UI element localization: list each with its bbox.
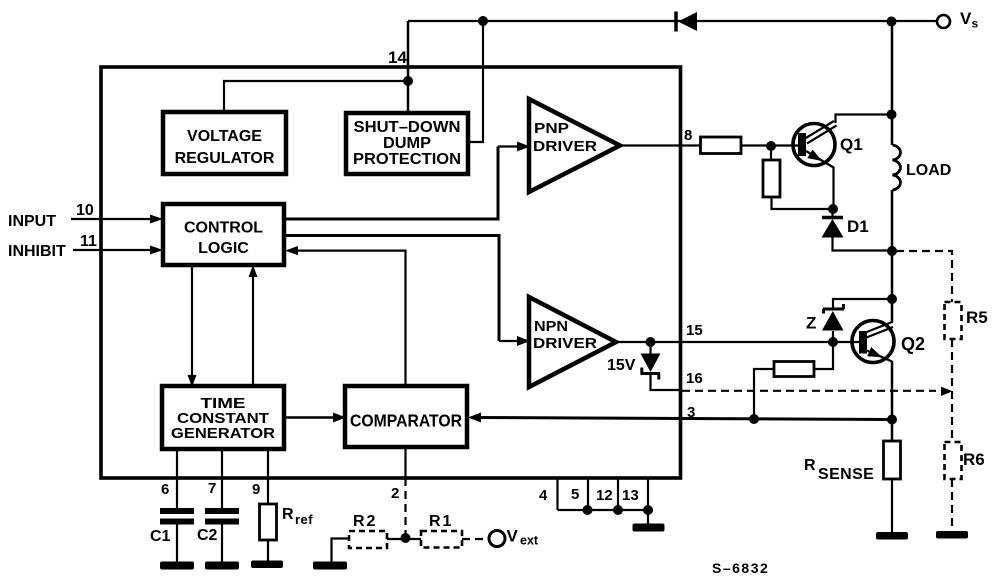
svg-text:REGULATOR: REGULATOR: [175, 150, 275, 167]
svg-text:R: R: [282, 506, 294, 523]
svg-text:INPUT: INPUT: [8, 213, 56, 230]
svg-text:LOGIC: LOGIC: [198, 240, 249, 257]
svg-text:R6: R6: [963, 450, 985, 469]
svg-text:ref: ref: [295, 512, 313, 527]
svg-text:6: 6: [161, 481, 169, 498]
svg-text:Z: Z: [806, 314, 816, 333]
svg-text:DUMP: DUMP: [383, 135, 431, 152]
svg-text:s: s: [972, 17, 979, 31]
svg-text:LOAD: LOAD: [906, 162, 951, 179]
svg-text:DRIVER: DRIVER: [533, 138, 597, 155]
svg-text:14: 14: [388, 48, 407, 67]
svg-text:GENERATOR: GENERATOR: [171, 425, 275, 442]
svg-text:2: 2: [391, 485, 399, 502]
svg-text:ext: ext: [520, 534, 539, 548]
svg-text:V: V: [507, 527, 519, 546]
svg-text:12: 12: [596, 487, 613, 504]
svg-text:V: V: [960, 9, 972, 28]
svg-text:PROTECTION: PROTECTION: [353, 151, 461, 168]
svg-text:D1: D1: [847, 217, 869, 236]
svg-text:INHIBIT: INHIBIT: [8, 243, 66, 260]
svg-text:COMPARATOR: COMPARATOR: [350, 411, 462, 431]
svg-text:10: 10: [76, 202, 94, 219]
svg-text:SENSE: SENSE: [818, 466, 874, 483]
svg-text:9: 9: [252, 481, 260, 498]
svg-text:11: 11: [80, 233, 97, 250]
svg-text:SHUT–DOWN: SHUT–DOWN: [354, 119, 461, 136]
svg-text:Q2: Q2: [901, 334, 925, 354]
svg-text:16: 16: [686, 370, 703, 387]
svg-text:PNP: PNP: [534, 120, 569, 137]
svg-text:13: 13: [622, 487, 639, 504]
svg-text:CONTROL: CONTROL: [184, 220, 263, 237]
svg-text:NPN: NPN: [534, 318, 568, 335]
svg-text:R: R: [804, 457, 816, 474]
svg-text:7: 7: [208, 480, 216, 497]
svg-text:4: 4: [539, 487, 548, 504]
svg-text:5: 5: [571, 486, 579, 503]
svg-text:R2: R2: [353, 513, 377, 530]
svg-text:VOLTAGE: VOLTAGE: [187, 128, 262, 145]
svg-text:DRIVER: DRIVER: [533, 335, 597, 352]
svg-text:C2: C2: [197, 527, 218, 544]
svg-text:15V: 15V: [607, 357, 636, 374]
svg-text:8: 8: [684, 127, 692, 144]
svg-text:Q1: Q1: [840, 135, 863, 154]
svg-text:S–6832: S–6832: [712, 560, 769, 576]
svg-text:C1: C1: [150, 528, 171, 545]
svg-text:R1: R1: [429, 513, 453, 530]
svg-text:R5: R5: [966, 308, 988, 327]
svg-text:15: 15: [686, 322, 703, 339]
